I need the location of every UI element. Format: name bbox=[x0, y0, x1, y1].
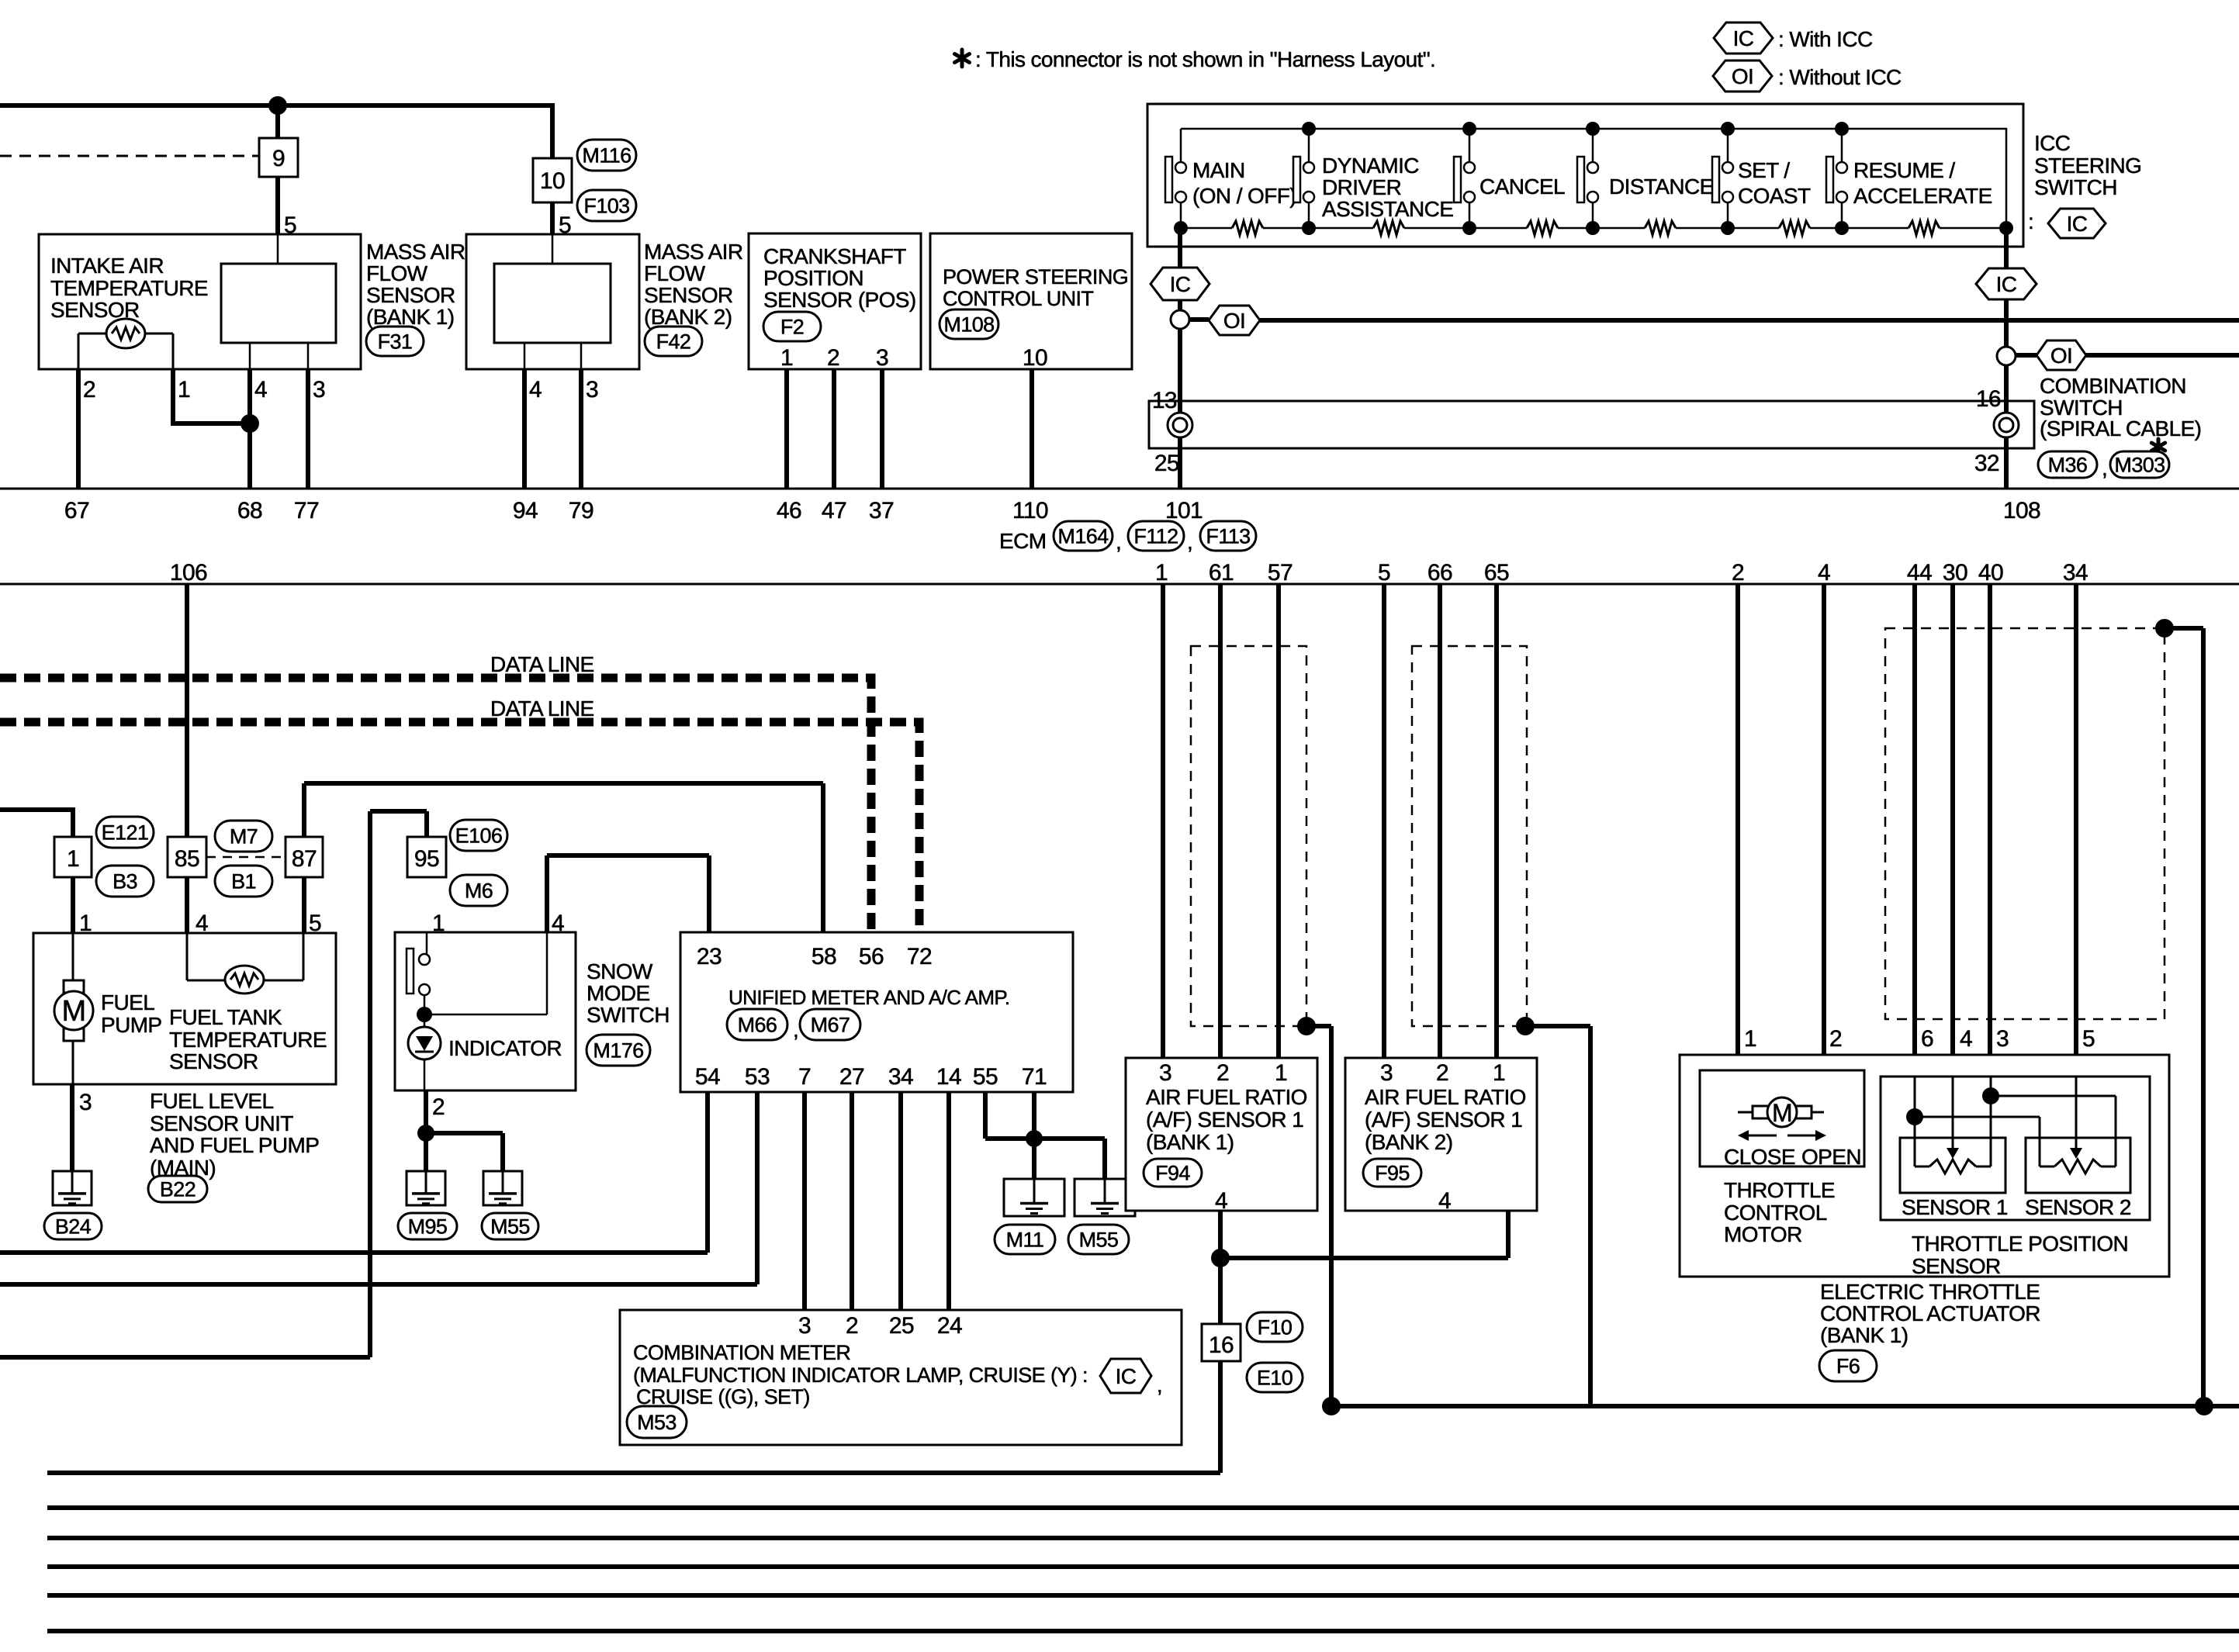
power steering control unit box M108 bbox=[930, 233, 1132, 369]
wire: MAF1 pin2 to ECM 67 bbox=[76, 369, 81, 489]
svg-text:10: 10 bbox=[540, 168, 565, 194]
svg-text:MAIN: MAIN bbox=[1192, 158, 1245, 182]
svg-text:SENSOR 2: SENSOR 2 bbox=[2025, 1195, 2131, 1219]
svg-text:ACCELERATE: ACCELERATE bbox=[1853, 184, 1992, 208]
svg-text:55: 55 bbox=[973, 1064, 998, 1090]
svg-text:101: 101 bbox=[1165, 498, 1203, 524]
connector label M176 bbox=[587, 1035, 650, 1066]
sensor 2 potentiometer box bbox=[2026, 1138, 2130, 1193]
svg-text:M7: M7 bbox=[230, 825, 258, 848]
svg-text:: This connector is not shown: : This connector is not shown in "Harnes… bbox=[975, 47, 1435, 71]
svg-text:1: 1 bbox=[67, 846, 79, 872]
svg-text:5: 5 bbox=[559, 213, 571, 238]
connector label M6 bbox=[450, 875, 507, 906]
ICC steering switch outer box M36/M303 feed bbox=[1147, 104, 2023, 247]
svg-text:16: 16 bbox=[1209, 1332, 1234, 1358]
wire: MAF1 pin1 jog to pin4 column bbox=[173, 369, 248, 423]
svg-text:1: 1 bbox=[1275, 1060, 1287, 1086]
svg-text:OPEN: OPEN bbox=[1801, 1145, 1861, 1169]
wire: MAF2 pin3 to ECM 79 bbox=[579, 369, 583, 489]
svg-text:58: 58 bbox=[812, 944, 836, 969]
svg-text:SET /: SET / bbox=[1738, 158, 1790, 182]
junction dots on bottom rail bbox=[1174, 221, 1188, 235]
wire: DATA LINE 1 (CAN) bbox=[0, 678, 871, 932]
wire: IAT sensor leads bbox=[78, 333, 106, 335]
svg-text:E10: E10 bbox=[1257, 1367, 1293, 1390]
svg-text:FUEL TANK: FUEL TANK bbox=[169, 1005, 282, 1029]
svg-text:IC: IC bbox=[1996, 272, 2017, 296]
connector 85 (M7/B1) bbox=[168, 837, 206, 877]
wire: ICC switch right column down bbox=[2004, 228, 2009, 269]
svg-text:71: 71 bbox=[1022, 1064, 1047, 1090]
note: asterisk connector note bbox=[960, 50, 964, 58]
wire: open circle to OI hexagon bbox=[1189, 317, 1209, 322]
svg-text:,: , bbox=[1157, 1374, 1162, 1397]
svg-text:F6: F6 bbox=[1836, 1355, 1860, 1378]
connector label F2 bbox=[763, 312, 821, 341]
wire: shield bank2 drain to ground bus bbox=[1525, 1026, 1590, 1406]
svg-text:56: 56 bbox=[859, 944, 884, 969]
svg-text:1: 1 bbox=[178, 377, 190, 403]
hexagon OI on right branch bbox=[2037, 340, 2086, 370]
svg-text:10: 10 bbox=[1023, 345, 1047, 371]
svg-text:COMBINATION METER: COMBINATION METER bbox=[633, 1341, 850, 1364]
wire: indicator to pin 2 bbox=[424, 1059, 426, 1090]
svg-text:44: 44 bbox=[1907, 560, 1932, 586]
svg-text:(BANK 1): (BANK 1) bbox=[1820, 1323, 1908, 1347]
wire: A/F ground through connector 16 bbox=[1218, 1258, 1223, 1324]
svg-text:1: 1 bbox=[1155, 560, 1168, 586]
svg-text:DYNAMIC: DYNAMIC bbox=[1322, 154, 1419, 178]
svg-text:30: 30 bbox=[1943, 560, 1967, 586]
svg-text:2: 2 bbox=[846, 1313, 858, 1339]
svg-text:(BANK 1): (BANK 1) bbox=[1146, 1130, 1234, 1154]
svg-text:1: 1 bbox=[1493, 1060, 1505, 1086]
svg-text:M36: M36 bbox=[2048, 454, 2088, 477]
svg-text:SENSOR 1: SENSOR 1 bbox=[1902, 1195, 2008, 1219]
wire: ECM 1 to A/F sensor1 bank1 pin 3 bbox=[1161, 584, 1165, 1058]
air fuel ratio sensor 1 bank1 box F94 bbox=[1126, 1058, 1317, 1211]
connector label M303 bbox=[2110, 451, 2169, 478]
svg-text:F2: F2 bbox=[780, 316, 804, 339]
svg-text:M303: M303 bbox=[2114, 454, 2165, 477]
wire: TPS supply link to sensor2 bbox=[1915, 1117, 2040, 1166]
wire: bottom run 5 bbox=[47, 1593, 2239, 1598]
svg-text:SWITCH: SWITCH bbox=[2034, 175, 2117, 199]
junction snow ground split bbox=[417, 1125, 434, 1142]
wire: connector 9 to MAF bank1 pin 5 bbox=[275, 177, 280, 234]
svg-text:3: 3 bbox=[876, 345, 888, 371]
wire: bottom run 3 bbox=[47, 1536, 2239, 1540]
ground label B24 bbox=[44, 1213, 102, 1239]
connector label F94 bbox=[1144, 1159, 1202, 1187]
svg-text:3: 3 bbox=[1159, 1060, 1171, 1086]
wire: power steering pin10 to ECM 110 bbox=[1030, 369, 1034, 489]
svg-text:1: 1 bbox=[780, 345, 793, 371]
crankshaft position sensor (POS) box F2 bbox=[749, 233, 921, 369]
svg-text:27: 27 bbox=[839, 1064, 864, 1090]
svg-text:MOTOR: MOTOR bbox=[1724, 1222, 1802, 1246]
svg-text:RESUME /: RESUME / bbox=[1853, 158, 1955, 182]
svg-text:SENSOR: SENSOR bbox=[644, 283, 733, 307]
svg-text:SWITCH: SWITCH bbox=[587, 1003, 670, 1027]
svg-text:2: 2 bbox=[1829, 1026, 1842, 1052]
connector 87 (M7/B1) bbox=[285, 837, 323, 877]
svg-text:FLOW: FLOW bbox=[644, 261, 706, 285]
svg-text:3: 3 bbox=[798, 1313, 811, 1339]
wire: MAF bank2 inner pins leads bbox=[524, 343, 526, 369]
svg-text:67: 67 bbox=[64, 498, 89, 524]
resistor R4 (DISTANCE) bbox=[1645, 221, 1676, 235]
wire: dashed branch into connector 9 bbox=[0, 155, 259, 157]
svg-text:(A/F) SENSOR 1: (A/F) SENSOR 1 bbox=[1365, 1108, 1522, 1132]
svg-text:F112: F112 bbox=[1133, 525, 1178, 548]
asterisk on M303 bbox=[2157, 439, 2161, 447]
svg-text:AIR FUEL RATIO: AIR FUEL RATIO bbox=[1146, 1085, 1307, 1109]
svg-text:POSITION: POSITION bbox=[763, 266, 863, 290]
connector label F42 bbox=[645, 327, 702, 356]
svg-text:34: 34 bbox=[888, 1064, 913, 1090]
svg-text:F10: F10 bbox=[1258, 1316, 1293, 1339]
svg-text:DATA LINE: DATA LINE bbox=[490, 652, 594, 676]
svg-text:46: 46 bbox=[777, 498, 801, 524]
ground label M55 (right) bbox=[1068, 1225, 1129, 1254]
svg-text:4: 4 bbox=[254, 377, 267, 403]
svg-text:54: 54 bbox=[695, 1064, 720, 1090]
svg-text:COMBINATION: COMBINATION bbox=[2040, 374, 2186, 398]
wire: meter 71 to ground M11 bbox=[1032, 1092, 1036, 1179]
svg-text:4: 4 bbox=[1818, 560, 1830, 586]
svg-text:CONTROL: CONTROL bbox=[1724, 1201, 1827, 1225]
wire: internal link to pin 4 bbox=[424, 932, 547, 1014]
wire: connector 10 to MAF bank2 pin 5 bbox=[550, 202, 555, 234]
wire: connector 87 up-over to unified meter 58 bbox=[304, 783, 823, 932]
wire: TPS pin4 wiper lead bbox=[1952, 1077, 1954, 1148]
ECM connector row 2 (bottom) bbox=[0, 583, 2239, 586]
wire: A/F bank1 pin4 down bbox=[1218, 1211, 1223, 1258]
svg-text:M: M bbox=[61, 995, 85, 1028]
connector label F10 bbox=[1247, 1312, 1303, 1342]
wire: ECM 106 to connector 85 bbox=[185, 584, 189, 837]
MAF bank2 inner element box bbox=[494, 264, 611, 343]
svg-text:2: 2 bbox=[827, 345, 839, 371]
motor M1: fuel pump bbox=[64, 980, 84, 993]
wire: snow switch to indicator node bbox=[424, 995, 426, 1027]
svg-text:SENSOR UNIT: SENSOR UNIT bbox=[150, 1111, 293, 1135]
svg-text:B22: B22 bbox=[160, 1178, 196, 1201]
svg-text:ELECTRIC THROTTLE: ELECTRIC THROTTLE bbox=[1820, 1280, 2040, 1304]
wire: spiral cable 32 to ECM 108 bbox=[2004, 448, 2009, 489]
ground B24 bbox=[53, 1171, 92, 1205]
connector label E121 bbox=[96, 817, 154, 848]
switch DISTANCE bbox=[1592, 129, 1594, 162]
legend IC hexagon: With ICC bbox=[1714, 22, 1773, 54]
wire: meter 27 to combination meter 2 bbox=[850, 1092, 854, 1310]
svg-text:57: 57 bbox=[1268, 560, 1293, 586]
svg-text:25: 25 bbox=[889, 1313, 914, 1339]
wire: ECM 61 to A/F sensor1 bank1 pin 2 bbox=[1218, 584, 1223, 1058]
svg-text:95: 95 bbox=[414, 846, 439, 872]
motor M2: throttle control motor bbox=[1738, 1111, 1753, 1114]
connector label M108 bbox=[940, 309, 998, 339]
spiral cable symbol left bbox=[1168, 413, 1192, 437]
connector label F113 bbox=[1200, 521, 1256, 551]
svg-text:110: 110 bbox=[1012, 498, 1048, 524]
wire: sensor ground bus to right edge bbox=[1331, 1404, 2239, 1408]
svg-text:FLOW: FLOW bbox=[366, 261, 428, 285]
connector label M53 bbox=[627, 1406, 687, 1438]
ground label M95 bbox=[398, 1213, 457, 1239]
connector label E10 bbox=[1247, 1363, 1303, 1392]
svg-text:OI: OI bbox=[1732, 64, 1753, 88]
wire: spiral cable 25 to ECM 101 bbox=[1178, 448, 1182, 489]
fuel level sensor unit and fuel pump box B22 bbox=[33, 933, 336, 1084]
svg-text:: With ICC: : With ICC bbox=[1778, 27, 1873, 51]
resistor R1 (MAIN) bbox=[1232, 221, 1263, 235]
wire: bottom run 4 bbox=[47, 1564, 2239, 1569]
svg-text:SNOW: SNOW bbox=[587, 959, 653, 983]
wire: throttle shield drain to ground bus bbox=[2165, 628, 2203, 1406]
combination meter box M53 bbox=[620, 1310, 1182, 1445]
svg-text:68: 68 bbox=[237, 498, 262, 524]
svg-text:106: 106 bbox=[170, 560, 207, 586]
connector label M36 bbox=[2038, 451, 2097, 478]
ECM connector row 1 (top) bbox=[0, 488, 2239, 490]
wire: MAF bank1 inner pins 4 and 3 leads bbox=[249, 343, 251, 369]
svg-text:M53: M53 bbox=[637, 1411, 677, 1434]
svg-text:66: 66 bbox=[1427, 560, 1452, 586]
svg-text:2: 2 bbox=[1732, 560, 1744, 586]
svg-text:87: 87 bbox=[292, 846, 317, 872]
svg-text:CONTROL UNIT: CONTROL UNIT bbox=[943, 287, 1093, 310]
wire: TPS ground link to sensor2 bbox=[1991, 1096, 2116, 1166]
svg-text:6: 6 bbox=[1921, 1026, 1933, 1052]
wire: connector 87 to fuel tank temp pin 5 bbox=[302, 877, 306, 933]
wire: ECM 65 to A/F sensor1 bank2 pin 1 bbox=[1494, 584, 1499, 1058]
wire: ECM 4 to throttle motor pin 2 bbox=[1822, 584, 1826, 1112]
svg-text:M: M bbox=[1772, 1099, 1792, 1127]
connector label M66 bbox=[727, 1009, 787, 1040]
throttle position sensor box bbox=[1881, 1077, 2150, 1220]
svg-text:IC: IC bbox=[1733, 26, 1754, 50]
svg-text:F42: F42 bbox=[656, 330, 691, 354]
resistor R2 (DYNAMIC DRIVER ASSISTANCE) bbox=[1373, 221, 1404, 235]
junction throttle shield drain bbox=[2155, 619, 2174, 638]
svg-text:(ON / OFF): (ON / OFF) bbox=[1192, 184, 1296, 208]
svg-text:5: 5 bbox=[2082, 1026, 2095, 1052]
arrows close/open bbox=[1748, 1135, 1777, 1137]
wire: connector 85 to fuel tank temp pin 4 bbox=[185, 877, 189, 933]
wire: branch to ground M55 bbox=[426, 1133, 503, 1171]
svg-text:M108: M108 bbox=[943, 313, 994, 337]
svg-text:F31: F31 bbox=[378, 330, 413, 354]
wire: right without-ICC branch to edge bbox=[2086, 353, 2239, 358]
ground M55 (right) bbox=[1075, 1179, 1135, 1216]
svg-text:B3: B3 bbox=[112, 870, 137, 893]
hexagon IC on right column bbox=[1976, 268, 2037, 299]
connector label F103 bbox=[577, 190, 636, 221]
svg-text:ASSISTANCE: ASSISTANCE bbox=[1322, 197, 1453, 221]
svg-text:MASS AIR: MASS AIR bbox=[366, 240, 465, 264]
wire: snow mode pin4 over to unified meter 23 bbox=[547, 855, 709, 932]
wire: snow pin 2 to grounds bbox=[424, 1090, 428, 1171]
wire: branch to ground M55 right bbox=[1034, 1139, 1105, 1179]
indicator LED D1 bbox=[408, 1027, 441, 1059]
junction meter grounds bbox=[1026, 1130, 1043, 1147]
svg-text:79: 79 bbox=[569, 498, 593, 524]
svg-text:1: 1 bbox=[1744, 1026, 1756, 1052]
connector label M164 bbox=[1054, 521, 1113, 551]
connector 1 (E121/B3) bbox=[54, 837, 92, 877]
connector 9 (M116/F103) bbox=[259, 138, 298, 177]
ground M55 (left) bbox=[483, 1171, 522, 1205]
svg-text:13: 13 bbox=[1152, 388, 1177, 413]
junction sensor ground bus left bbox=[1322, 1397, 1341, 1415]
svg-text:77: 77 bbox=[294, 498, 319, 524]
wire: meter 7 to combination meter 3 bbox=[802, 1092, 807, 1310]
air fuel ratio sensor 1 bank2 box F95 bbox=[1345, 1058, 1537, 1211]
svg-text:F94: F94 bbox=[1155, 1162, 1190, 1185]
wire: ECM 30 to TPS pin 4 bbox=[1950, 584, 1955, 1077]
svg-text:PUMP: PUMP bbox=[101, 1013, 162, 1037]
connector label M67 bbox=[800, 1009, 860, 1040]
MAF bank1 inner element box bbox=[221, 264, 336, 343]
svg-text:5: 5 bbox=[284, 213, 296, 238]
svg-text:40: 40 bbox=[1978, 560, 2003, 586]
shield dashed box (A/F bank2) bbox=[1412, 646, 1527, 1026]
resistor R5 (SET/COAST) bbox=[1779, 221, 1810, 235]
svg-text:ICC: ICC bbox=[2034, 131, 2071, 155]
svg-text:(MALFUNCTION INDICATOR LAMP, C: (MALFUNCTION INDICATOR LAMP, CRUISE (Y) … bbox=[633, 1363, 1088, 1387]
svg-text:M176: M176 bbox=[593, 1039, 643, 1063]
svg-text:34: 34 bbox=[2063, 560, 2088, 586]
wire: left feed to fuel pump connector 1 bbox=[0, 810, 73, 837]
wire: MAF1 pin3 to ECM 77 bbox=[306, 369, 310, 489]
svg-text:SENSOR: SENSOR bbox=[169, 1049, 258, 1073]
svg-text:(A/F) SENSOR 1: (A/F) SENSOR 1 bbox=[1146, 1108, 1303, 1132]
wire: ECM 57 to A/F sensor1 bank1 pin 1 bbox=[1276, 584, 1281, 1058]
svg-text:,: , bbox=[793, 1018, 798, 1042]
thermistor: intake air temperature sensor element bbox=[106, 319, 145, 348]
switch MAIN (ON/OFF) bbox=[1180, 129, 1182, 162]
junction shield bank2 drain bbox=[1516, 1017, 1535, 1035]
wire: bottom run 6 bbox=[47, 1629, 2239, 1633]
wire: right column through with-ICC line bbox=[2004, 299, 2009, 347]
wire: meter 54 to page left bbox=[0, 1092, 708, 1253]
connector 95 (E106/M6) bbox=[407, 837, 446, 877]
svg-text:COAST: COAST bbox=[1738, 184, 1811, 208]
wire: DATA LINE 2 (CAN) bbox=[0, 722, 919, 932]
svg-text:(BANK 1): (BANK 1) bbox=[366, 305, 454, 329]
svg-text:MODE: MODE bbox=[587, 981, 650, 1005]
svg-text:32: 32 bbox=[1974, 451, 1999, 476]
hexagon IC (ICC steering switch variant) bbox=[2048, 209, 2106, 238]
svg-text:72: 72 bbox=[907, 944, 932, 969]
hexagon IC (combination meter note) bbox=[1100, 1359, 1151, 1393]
svg-text:OI: OI bbox=[1223, 309, 1245, 333]
svg-text:2: 2 bbox=[83, 377, 95, 403]
wire: connector 1 to fuel pump pin 1 bbox=[71, 877, 75, 933]
svg-text:(BANK 2): (BANK 2) bbox=[1365, 1130, 1452, 1154]
svg-text:E106: E106 bbox=[455, 824, 503, 848]
svg-text:16: 16 bbox=[1976, 386, 2001, 412]
snow mode switch box M176 bbox=[395, 932, 576, 1090]
connector 16 (F10/E10) bbox=[1202, 1324, 1241, 1361]
wire: meter 55 to ground join bbox=[985, 1092, 1034, 1139]
junction sensor ground bus right bbox=[2195, 1397, 2213, 1415]
ground label M11 bbox=[995, 1225, 1055, 1254]
svg-text:23: 23 bbox=[697, 944, 722, 969]
junction shield bank1 drain bbox=[1297, 1017, 1316, 1035]
dashed link 85-87 bbox=[206, 856, 285, 859]
svg-text:1: 1 bbox=[432, 911, 445, 936]
svg-text:5: 5 bbox=[1378, 560, 1390, 586]
svg-text:(SPIRAL CABLE): (SPIRAL CABLE) bbox=[2040, 416, 2201, 441]
resistor R6 (RESUME/ACCELERATE) bbox=[1909, 221, 1940, 235]
svg-text:4: 4 bbox=[1960, 1026, 1972, 1052]
svg-text:47: 47 bbox=[822, 498, 846, 524]
svg-text:F103: F103 bbox=[583, 195, 629, 218]
svg-text:85: 85 bbox=[175, 846, 199, 872]
svg-text:DRIVER: DRIVER bbox=[1322, 175, 1401, 199]
connector 10 (M116/F103) bbox=[533, 158, 572, 202]
svg-text:3: 3 bbox=[313, 377, 325, 403]
svg-text:M95: M95 bbox=[408, 1215, 448, 1239]
svg-text:65: 65 bbox=[1484, 560, 1509, 586]
shield dashed box (A/F bank1) bbox=[1191, 646, 1306, 1026]
svg-text:(BANK 2): (BANK 2) bbox=[644, 305, 732, 329]
junction open circle (left column) bbox=[1171, 310, 1189, 329]
wire: connector 95 up-over-down to page left bbox=[0, 811, 427, 1357]
wire: A/F bank2 pin4 link bbox=[1220, 1211, 1508, 1258]
svg-text:AND FUEL PUMP: AND FUEL PUMP bbox=[150, 1133, 319, 1157]
wire: meter 53 to page left bbox=[0, 1092, 757, 1284]
wire: connector 16 down to page-left run bbox=[47, 1361, 1220, 1473]
svg-text:,: , bbox=[2102, 456, 2107, 480]
svg-text:SENSOR: SENSOR bbox=[366, 283, 455, 307]
wire: MAF1 pin4 to ECM 68 bbox=[247, 369, 252, 489]
svg-text:AIR FUEL RATIO: AIR FUEL RATIO bbox=[1365, 1085, 1526, 1109]
junction pin1/pin4 columns bbox=[241, 414, 259, 433]
wire: right open circle to OI hexagon bbox=[2016, 353, 2037, 358]
svg-text:IC: IC bbox=[1116, 1364, 1137, 1388]
svg-text:INTAKE AIR: INTAKE AIR bbox=[50, 254, 164, 278]
junction open circle (right column) bbox=[1997, 347, 2016, 365]
svg-text::: : bbox=[2028, 209, 2033, 233]
svg-text:M55: M55 bbox=[490, 1215, 530, 1239]
wire: ECM 2 to throttle motor pin 1 bbox=[1735, 584, 1740, 1112]
svg-text:B1: B1 bbox=[231, 870, 256, 893]
svg-text:: Without ICC: : Without ICC bbox=[1778, 65, 1902, 89]
wire: fuel pump pin 3 to ground B24 bbox=[70, 1084, 74, 1171]
wire: TPS pin3 lead bbox=[1990, 1077, 1992, 1166]
wire: TPS pin5 wiper lead bbox=[2075, 1077, 2078, 1148]
svg-text:CRANKSHAFT: CRANKSHAFT bbox=[763, 244, 906, 268]
svg-text:M116: M116 bbox=[582, 144, 631, 168]
wire: left column IC hexagon to junction bbox=[1178, 300, 1182, 311]
wire: ECM 5 to A/F sensor1 bank2 pin 3 bbox=[1382, 584, 1386, 1058]
wire: left column to spiral cable pin 13 bbox=[1178, 329, 1182, 448]
svg-text:24: 24 bbox=[937, 1313, 962, 1339]
svg-text:F95: F95 bbox=[1375, 1162, 1410, 1185]
svg-text:,: , bbox=[1116, 530, 1121, 554]
wire: switch bottom rail segments with resistors bbox=[1181, 227, 1232, 230]
svg-text:108: 108 bbox=[2003, 498, 2040, 524]
wire: POS pin1 to ECM 46 bbox=[784, 369, 789, 489]
svg-text:94: 94 bbox=[513, 498, 538, 524]
wire: TPS pin6 lead bbox=[1914, 1077, 1916, 1166]
electric throttle control actuator outer box F6 bbox=[1680, 1055, 2169, 1277]
